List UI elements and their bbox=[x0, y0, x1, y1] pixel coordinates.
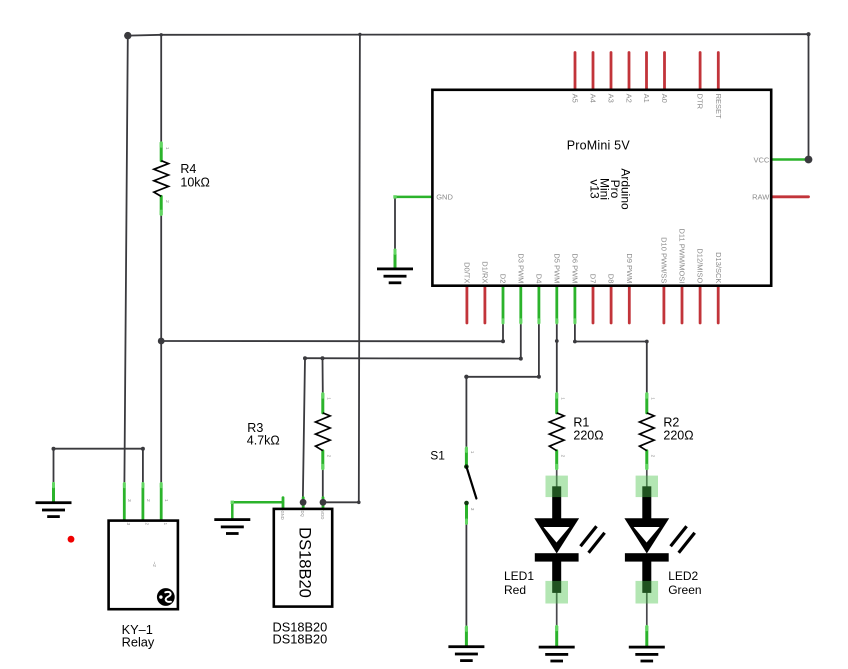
svg-text:Red: Red bbox=[504, 583, 526, 597]
svg-text:VCC: VCC bbox=[753, 155, 769, 164]
svg-text:~2: ~2 bbox=[151, 562, 157, 568]
svg-text:2: 2 bbox=[145, 499, 151, 502]
svg-text:DQ: DQ bbox=[300, 511, 305, 518]
svg-text:ProMini 5V: ProMini 5V bbox=[567, 139, 631, 153]
svg-text:4.7kΩ: 4.7kΩ bbox=[247, 434, 280, 448]
svg-text:1: 1 bbox=[163, 499, 169, 502]
svg-text:1: 1 bbox=[326, 397, 332, 400]
svg-text:D7: D7 bbox=[589, 274, 598, 284]
svg-text:A2: A2 bbox=[625, 94, 634, 103]
svg-text:D4: D4 bbox=[535, 274, 544, 284]
svg-text:2: 2 bbox=[326, 455, 332, 458]
svg-text:DS18B20: DS18B20 bbox=[273, 632, 328, 647]
svg-text:A1: A1 bbox=[642, 94, 651, 103]
svg-text:R4: R4 bbox=[180, 162, 196, 176]
svg-text:D10 PWM/SS: D10 PWM/SS bbox=[660, 237, 669, 283]
svg-text:D5 PWM: D5 PWM bbox=[552, 253, 561, 283]
svg-text:A0: A0 bbox=[660, 94, 669, 103]
svg-text:LED1: LED1 bbox=[504, 569, 534, 583]
svg-text:v13: v13 bbox=[587, 179, 601, 199]
svg-text:DTR: DTR bbox=[696, 94, 705, 110]
svg-text:A3: A3 bbox=[607, 94, 616, 103]
svg-text:A4: A4 bbox=[589, 94, 598, 103]
svg-text:LED2: LED2 bbox=[668, 569, 698, 583]
svg-text:RESET: RESET bbox=[714, 94, 723, 119]
svg-text:S1: S1 bbox=[430, 448, 445, 462]
svg-text:3: 3 bbox=[126, 499, 132, 502]
svg-text:1: 1 bbox=[650, 397, 656, 400]
svg-text:220Ω: 220Ω bbox=[573, 428, 603, 442]
svg-text:D6 PWM: D6 PWM bbox=[571, 253, 580, 283]
svg-text:DS18B20: DS18B20 bbox=[296, 527, 314, 598]
svg-text:GND: GND bbox=[436, 193, 453, 202]
svg-text:Relay: Relay bbox=[122, 634, 155, 649]
svg-text:2: 2 bbox=[164, 200, 170, 203]
svg-text:1: 1 bbox=[162, 523, 168, 526]
svg-text:3: 3 bbox=[125, 523, 131, 526]
svg-text:3: 3 bbox=[469, 508, 475, 511]
svg-text:D1/RX: D1/RX bbox=[481, 261, 490, 283]
svg-text:D3 PWM: D3 PWM bbox=[516, 253, 525, 283]
svg-text:D12/MISO: D12/MISO bbox=[696, 248, 705, 283]
svg-text:A5: A5 bbox=[571, 94, 580, 103]
svg-text:2: 2 bbox=[559, 455, 565, 458]
svg-text:D8: D8 bbox=[607, 274, 616, 284]
svg-text:2: 2 bbox=[144, 523, 150, 526]
svg-text:1: 1 bbox=[469, 451, 475, 454]
svg-text:D0/TX: D0/TX bbox=[463, 262, 472, 283]
svg-text:GND: GND bbox=[280, 511, 285, 520]
svg-text:220Ω: 220Ω bbox=[663, 428, 693, 442]
svg-text:RAW: RAW bbox=[752, 193, 770, 202]
svg-text:D9 PWM: D9 PWM bbox=[625, 253, 634, 283]
svg-text:D2: D2 bbox=[499, 274, 508, 284]
svg-text:D13/SCK: D13/SCK bbox=[714, 252, 723, 283]
svg-text:D11 PWM/MOSI: D11 PWM/MOSI bbox=[678, 229, 687, 284]
svg-text:1: 1 bbox=[559, 397, 565, 400]
svg-text:2: 2 bbox=[650, 455, 656, 458]
svg-text:10kΩ: 10kΩ bbox=[180, 176, 210, 190]
svg-text:VDD: VDD bbox=[320, 511, 325, 520]
svg-text:Green: Green bbox=[668, 583, 701, 597]
svg-text:1: 1 bbox=[164, 147, 170, 150]
